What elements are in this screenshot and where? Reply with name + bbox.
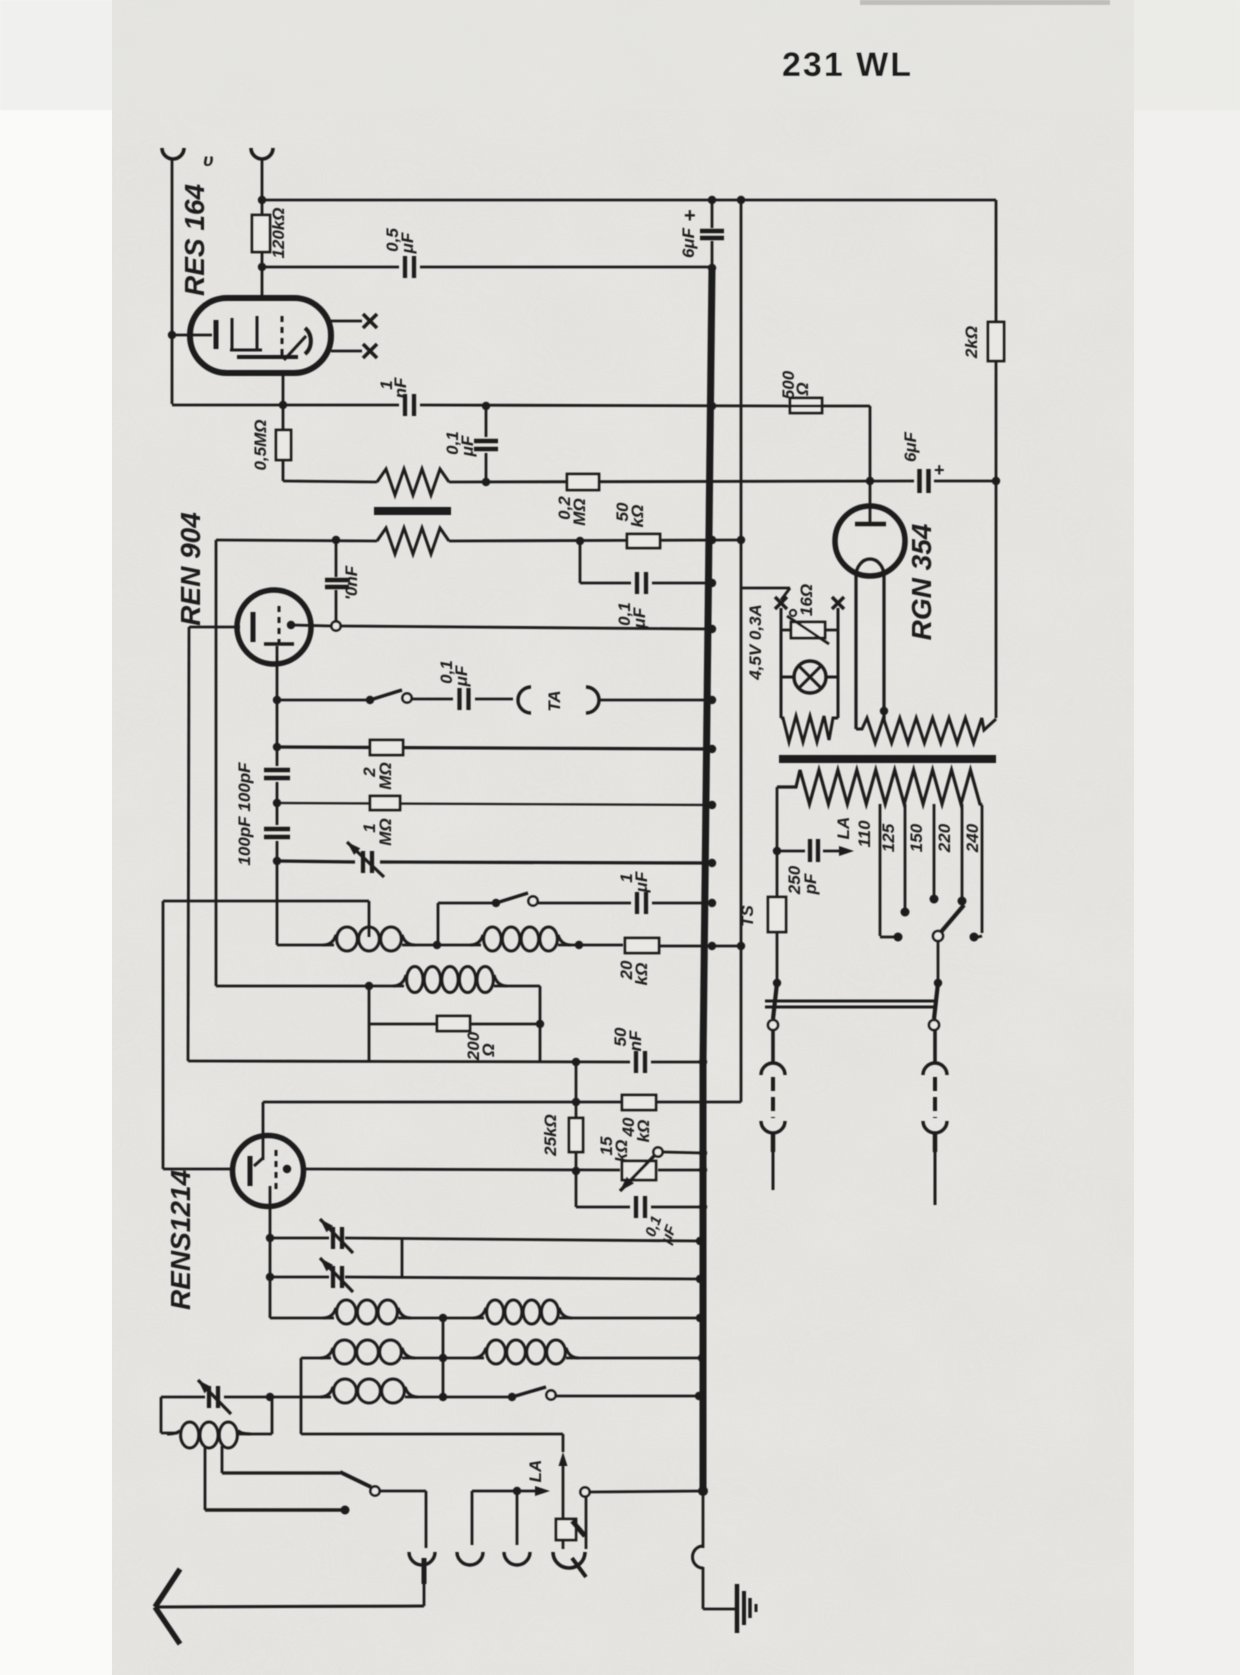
terminal cup A xyxy=(409,1552,435,1565)
wire heater lead top right xyxy=(331,320,362,323)
wire coil right to x272 xyxy=(238,1433,272,1436)
svg-text:LA: LA xyxy=(526,1460,545,1483)
node x742 y540 xyxy=(737,536,745,544)
node bus y1062 xyxy=(699,1058,707,1066)
tap 125 xyxy=(904,804,907,908)
switch wave circle xyxy=(370,1486,379,1495)
wire 580 down to rail583 xyxy=(579,541,582,583)
capacitor 0.1uF at 486 xyxy=(485,406,488,437)
tap 240 xyxy=(981,805,984,933)
wire trimmer1 row xyxy=(270,1237,329,1240)
svg-text:100pF: 100pF xyxy=(235,816,254,866)
wire 250pF row xyxy=(777,850,805,853)
earth component rect xyxy=(556,1519,576,1540)
wire vertical x=189 cathode down xyxy=(188,627,189,1061)
wire x=563 down from 1434 xyxy=(562,1434,565,1452)
bus main vertical thick xyxy=(703,268,712,1062)
node 443 y1358 xyxy=(439,1354,447,1362)
capacitor 6uF right xyxy=(917,469,922,493)
wire pin A to rail1606 xyxy=(423,1584,426,1606)
primary winding zigzag xyxy=(777,770,982,805)
wire REN904 cathode rail left xyxy=(189,626,240,629)
resistor 2M xyxy=(370,740,403,755)
wire 2k branch x=996 xyxy=(995,200,998,322)
wire rail y=1024 200ohm xyxy=(369,1023,540,1026)
capacitor 0.1uF-641 xyxy=(635,572,639,594)
wire grid lead down to 0.5M xyxy=(282,373,285,430)
wire switch to corner xyxy=(380,1490,426,1493)
svg-text:REN 904: REN 904 xyxy=(175,512,206,626)
node 576 y1062 xyxy=(572,1058,580,1066)
node bus y629 xyxy=(708,625,716,633)
svg-text:240: 240 xyxy=(963,823,982,853)
svg-text:kΩ: kΩ xyxy=(612,1140,631,1163)
REN904 grid node xyxy=(287,621,295,629)
wire circle to bus y1491 xyxy=(590,1491,703,1492)
wire 0.5M to rail481 xyxy=(282,460,285,481)
contact dead end xyxy=(341,1506,350,1515)
mains switch coupling bar xyxy=(765,1000,934,1003)
RES164 anode diagonal xyxy=(284,336,306,360)
wire row1 mid xyxy=(398,1317,484,1320)
potentiometer 15k body xyxy=(622,1161,656,1180)
node bus y268 xyxy=(708,264,716,272)
wire anode corner to coil xyxy=(277,944,334,947)
coil osc anode 3 loops xyxy=(323,935,336,945)
wire circle to bus xyxy=(341,626,712,629)
plug pin left xyxy=(771,1133,776,1152)
RES164 inner bottom bar xyxy=(237,355,298,359)
coil osc grid 5 loops xyxy=(393,975,406,986)
node 270 y1397 xyxy=(266,1393,274,1401)
svg-text:Ω: Ω xyxy=(479,1043,498,1057)
wire row3 mid xyxy=(405,1396,512,1399)
svg-text:0,5MΩ: 0,5MΩ xyxy=(251,419,270,470)
wire tap2 rail right xyxy=(222,1471,340,1474)
wire grid to circle terminal xyxy=(291,625,332,626)
svg-text:+: + xyxy=(934,460,945,480)
node 369 y986 xyxy=(365,982,373,990)
resistor 40k xyxy=(622,1095,656,1110)
wire coil row2 corner xyxy=(301,1357,331,1360)
node 870 on rail481 xyxy=(866,477,874,485)
node cathode lead left xyxy=(168,331,176,339)
tap 150 xyxy=(933,804,936,895)
wire heater lead bottom right xyxy=(331,350,362,353)
svg-text:Ω: Ω xyxy=(793,382,812,396)
wire tap1 rail right xyxy=(205,1508,345,1511)
wire row2 to bus xyxy=(566,1357,702,1360)
capacitor 1nF xyxy=(403,394,407,416)
wire 1uF row corner xyxy=(437,903,440,945)
node 517 y1491 xyxy=(513,1487,521,1495)
node 576 y1171 xyxy=(572,1167,580,1175)
wire x=586 down xyxy=(585,1497,588,1549)
svg-text:231 WL: 231 WL xyxy=(782,46,913,84)
node 486 on rail481 xyxy=(482,478,490,486)
wire x=163 down xyxy=(162,901,165,1169)
wire TA row to bus xyxy=(598,699,712,702)
RGN354 anode bar xyxy=(855,522,886,527)
wire wiper to bus xyxy=(663,1152,703,1153)
RENS anode wire top xyxy=(262,1102,265,1160)
trimmer capacitor mid xyxy=(361,851,365,873)
node 0.1uF top xyxy=(482,402,490,410)
wire rect to cup xyxy=(562,1540,565,1549)
jack TA right contact xyxy=(586,687,599,713)
wire x=272 tank right xyxy=(271,1397,274,1434)
svg-text:pF: pF xyxy=(801,873,820,895)
trimmer capacitor 2 xyxy=(331,1266,335,1288)
resistor 120k xyxy=(252,215,270,252)
wire row2 mid xyxy=(402,1357,484,1360)
capacitor 1uF xyxy=(635,892,639,914)
wire 1M row xyxy=(277,803,712,805)
node trimmer row xyxy=(273,857,281,865)
svg-text:μF: μF xyxy=(632,871,651,893)
wire right down xyxy=(837,608,840,718)
coil IF d 4 loops xyxy=(473,1348,486,1358)
wire rail y=540 from corner to zigzag xyxy=(216,540,377,541)
node bus y1491 xyxy=(698,1486,708,1496)
svg-text:nF: nF xyxy=(626,1030,645,1051)
coil RF 4 loops xyxy=(470,935,483,945)
RES164 anode arc xyxy=(305,328,311,354)
wire anode column x=277 xyxy=(276,664,279,766)
node trimmer1 row xyxy=(266,1234,274,1242)
wire 500 corner down xyxy=(789,405,870,408)
svg-text:MΩ: MΩ xyxy=(570,498,589,525)
wire rail y=901 xyxy=(163,900,369,903)
wire rail481 right end xyxy=(934,480,996,483)
wire rail y=405 from left corner to 500ohm xyxy=(172,404,399,407)
resistor 20k xyxy=(625,938,659,953)
terminal circle grid REN904 xyxy=(331,621,340,630)
wire rail y=583 to bus xyxy=(580,582,631,585)
earth component bar xyxy=(572,1521,585,1536)
node bus y805 xyxy=(708,801,716,809)
coil IF a 3 loops xyxy=(323,1308,336,1318)
svg-text:μF: μF xyxy=(630,607,649,629)
RGN354 filament loop xyxy=(856,559,884,576)
node 580 rail540 xyxy=(576,537,584,545)
resistor 200 xyxy=(437,1016,470,1031)
REN904 grid dashed xyxy=(278,606,281,648)
svg-text:TA: TA xyxy=(545,690,564,711)
node bus y946 xyxy=(708,942,716,950)
resistor 50k xyxy=(627,534,660,548)
svg-text:2kΩ: 2kΩ xyxy=(962,326,981,359)
wire lamp left lead xyxy=(781,676,794,679)
wire rail y=1169 grid RENS xyxy=(306,1169,620,1170)
wire rail y=1102 xyxy=(263,1101,741,1104)
potentiometer 15k wiper circle xyxy=(653,1147,662,1156)
node TA row xyxy=(273,696,281,704)
resistor 25k xyxy=(569,1118,583,1152)
resistor 2k xyxy=(988,322,1004,361)
svg-text:4,5V 0,3A: 4,5V 0,3A xyxy=(746,604,765,681)
x mark heater 1 xyxy=(363,314,377,328)
node bus y540 xyxy=(708,536,716,544)
node trimmer2 row xyxy=(266,1273,274,1281)
node bus y903 xyxy=(708,899,716,907)
RES164 cathode bar xyxy=(214,320,219,349)
wire terminal1 down to corner xyxy=(171,160,174,404)
switch wave pivot xyxy=(340,1472,371,1487)
wire coil row1 corner xyxy=(270,1317,334,1320)
svg-text:25kΩ: 25kΩ xyxy=(541,1114,560,1157)
wire tank left x=161 xyxy=(160,1397,163,1433)
wire trimmer2 row xyxy=(270,1276,329,1279)
node 10nF top xyxy=(332,536,340,544)
capacitor 0.5uF xyxy=(403,256,407,278)
node x742 top xyxy=(737,196,745,204)
node bus y1279 xyxy=(696,1275,704,1283)
switch row3 blade xyxy=(512,1387,546,1397)
transformer core bar xyxy=(779,755,996,763)
cord left upper xyxy=(771,1030,775,1063)
node 443 y1397 xyxy=(439,1393,447,1401)
resistor 0.5M xyxy=(276,430,291,460)
wire rail y=986 from x216 xyxy=(216,985,404,988)
node filament right xyxy=(880,707,888,715)
wire TA row mid xyxy=(412,698,453,701)
node 250pF row xyxy=(773,847,781,855)
wire x996 down to transformer xyxy=(995,481,998,718)
x mark heater left xyxy=(775,597,787,609)
node 996 on rail481 xyxy=(992,477,1000,485)
capacitor 50nF xyxy=(634,1051,638,1073)
coil antenna 3 loops xyxy=(167,1431,180,1435)
capacitor 0.1uF TA xyxy=(457,688,461,710)
svg-text:RENS1214: RENS1214 xyxy=(165,1170,196,1311)
wire primary left x=777 xyxy=(776,787,779,851)
wire lamp right lead xyxy=(826,676,838,679)
antenna arrow symbol xyxy=(155,1569,180,1607)
trimmer capacitor antenna xyxy=(207,1386,211,1408)
node x742 y946 xyxy=(737,942,745,950)
capacitor 100pF lower xyxy=(264,827,290,832)
wire to 20k xyxy=(558,944,623,947)
mains selector circle xyxy=(933,931,943,941)
wire tap2 down xyxy=(221,1446,224,1473)
svg-text:μF: μF xyxy=(458,435,477,457)
potentiometer wiper bar xyxy=(374,507,451,515)
RENS grid node xyxy=(283,1165,291,1173)
wire tank bottom to coil xyxy=(161,1432,178,1435)
node 576 y1102 xyxy=(572,1098,580,1106)
REN904 anode bar xyxy=(264,642,294,646)
cord right upper xyxy=(933,1030,937,1063)
wire row3 left antenna tank rail xyxy=(161,1396,205,1399)
wire anode down xyxy=(276,646,279,664)
node bus top xyxy=(708,196,716,204)
node bus y700 xyxy=(708,696,716,704)
x mark heater 2 xyxy=(363,344,377,358)
svg-text:220: 220 xyxy=(935,823,954,853)
plug pin right xyxy=(933,1133,938,1152)
wire 120k to tube top xyxy=(261,252,264,300)
tube RES164 envelope xyxy=(190,298,331,373)
mains selector lever xyxy=(941,905,964,932)
wire RENS cathode rail xyxy=(163,1168,233,1171)
resistor 500 xyxy=(790,398,822,413)
svg-text:μF: μF xyxy=(452,665,471,687)
wire rail y=540 to bus and x742 xyxy=(449,540,741,541)
wire bus thin below xyxy=(702,1491,705,1548)
switch 1uF circle xyxy=(528,896,537,905)
tube RGN354 envelope xyxy=(835,506,905,576)
coil IF e 3 loops xyxy=(320,1387,333,1397)
svg-text:kΩ: kΩ xyxy=(632,963,651,986)
svg-text:TS: TS xyxy=(738,904,757,926)
wire rail y=267 to bus xyxy=(262,266,399,269)
mains switch blade left xyxy=(773,983,777,1019)
capacitor 0.1uF RENS xyxy=(634,1196,638,1218)
mains switch blade right xyxy=(934,983,938,1019)
potentiometer 15k arrow xyxy=(620,1156,654,1191)
tube REN904 envelope xyxy=(237,590,311,664)
node bus y1241 xyxy=(696,1237,704,1245)
svg-text:16Ω: 16Ω xyxy=(797,584,816,616)
wire TA row left xyxy=(277,699,370,702)
wire coil2 right corner xyxy=(494,985,540,988)
heater winding small zigzag xyxy=(781,716,838,742)
node 2M row xyxy=(273,743,281,751)
jack TA left contact xyxy=(518,687,531,713)
wire cathode lead xyxy=(172,334,212,337)
tap 110 xyxy=(879,804,882,936)
svg-text:υ: υ xyxy=(203,150,214,170)
heater winding main zigzag xyxy=(856,718,996,743)
wire filament leg right xyxy=(882,576,885,722)
tap 220 xyxy=(961,804,964,898)
switch row3 circle xyxy=(546,1390,555,1399)
wire RGN354 anode lead xyxy=(869,481,872,524)
node x402 y1238 xyxy=(401,1238,404,1277)
svg-text:125: 125 xyxy=(879,823,898,852)
svg-text:nF: nF xyxy=(391,377,410,398)
mains switch circle right xyxy=(929,1020,939,1030)
socket cup left xyxy=(761,1063,785,1075)
x mark heater right xyxy=(832,597,844,609)
switch 1uF blade xyxy=(496,893,528,903)
wire x=443 link xyxy=(442,1318,445,1397)
wire RENS anode down xyxy=(269,1186,272,1318)
svg-text:RES 164: RES 164 xyxy=(179,184,210,296)
wire bus to ground xyxy=(703,1608,737,1611)
node 1M row xyxy=(273,799,281,807)
switch TA circle xyxy=(402,693,411,702)
capacitor 10nF xyxy=(335,540,338,577)
wire rail y=481 left part xyxy=(283,481,377,482)
wire terminal2 down to 120k xyxy=(261,160,264,215)
node rail200-start xyxy=(258,196,266,204)
capacitor 6uF on bus xyxy=(711,200,714,228)
terminal antenna input 1 xyxy=(162,148,184,159)
terminal pin A xyxy=(422,1558,427,1584)
svg-text:MΩ: MΩ xyxy=(376,818,395,845)
RES164 screen electrode xyxy=(231,318,234,350)
svg-text:110: 110 xyxy=(855,820,874,848)
node 579 y945 xyxy=(575,941,583,949)
wire selector down xyxy=(937,941,940,980)
paper tone patches xyxy=(0,0,1240,110)
svg-text:MΩ: MΩ xyxy=(376,762,395,789)
wire filament leg left xyxy=(854,576,857,729)
wire left down to 16ohm xyxy=(780,608,783,718)
svg-text:100pF: 100pF xyxy=(235,762,254,812)
node bus y583 xyxy=(708,579,716,587)
switch TA blade xyxy=(370,690,402,700)
node bus y1207 xyxy=(699,1203,707,1211)
RES164 grid dashed line xyxy=(281,316,284,356)
cord left dashes xyxy=(771,1077,775,1118)
fuse TS xyxy=(776,851,779,983)
cord right dashes xyxy=(933,1077,937,1118)
wire rail y=1606 xyxy=(157,1606,424,1607)
svg-text:150: 150 xyxy=(907,823,926,852)
tube RENS1214 envelope xyxy=(233,1136,304,1207)
node bus y1318 xyxy=(696,1314,704,1322)
terminal cup D wide xyxy=(553,1552,585,1568)
wire rail 1434 xyxy=(301,1433,563,1436)
node bus y1170 xyxy=(699,1166,707,1174)
svg-text:μF: μF xyxy=(398,232,417,254)
ground symbol xyxy=(735,1584,740,1633)
wire x=369 tap xyxy=(368,901,371,937)
wire coil to 436 xyxy=(402,944,481,947)
resistor zigzag volume bottom xyxy=(377,528,449,554)
bus loop xyxy=(693,1546,703,1568)
plug cup left xyxy=(761,1121,785,1133)
svg-text:6μF: 6μF xyxy=(901,431,920,462)
switch row3 pivot xyxy=(508,1393,516,1401)
wire rail y=481 mid xyxy=(449,481,914,482)
coil IF c 3 loops xyxy=(320,1348,333,1358)
wire LA arrow xyxy=(517,1490,538,1493)
wire x=741 long vertical xyxy=(740,200,743,1102)
plug cup right xyxy=(923,1121,947,1133)
node grid-1nF junction xyxy=(279,401,287,409)
svg-text:'0nF: '0nF xyxy=(342,565,361,600)
wire 1uF row mid xyxy=(538,902,631,905)
node bus y863 xyxy=(708,859,716,867)
node bus y749 xyxy=(708,745,716,753)
lamp dial xyxy=(794,661,826,693)
wire row3 to bus xyxy=(556,1395,697,1398)
node bus y406 xyxy=(708,402,716,410)
node 540 y1024 xyxy=(536,1020,544,1028)
resistor 0.2M xyxy=(567,474,599,490)
wire rail y=200 top horizontal xyxy=(262,199,996,202)
node bus y1358 xyxy=(698,1354,706,1362)
resistor 1M xyxy=(370,796,400,810)
wire 20k to bus xyxy=(659,945,741,948)
terminal circle LA2 xyxy=(580,1487,589,1496)
wire vertical x=216 xyxy=(215,540,218,986)
resistor zigzag volume top xyxy=(377,469,449,495)
REN904 cathode bar xyxy=(251,612,256,642)
terminal cup C xyxy=(504,1552,530,1565)
resistor 16 adjustable xyxy=(790,610,796,616)
svg-text:+: + xyxy=(684,205,696,227)
node 436 y945 xyxy=(433,941,441,949)
svg-text:kΩ: kΩ xyxy=(634,1120,653,1143)
wire 517 down xyxy=(516,1491,519,1545)
node 443 y1318 xyxy=(439,1314,447,1322)
node rail267 xyxy=(258,263,266,271)
